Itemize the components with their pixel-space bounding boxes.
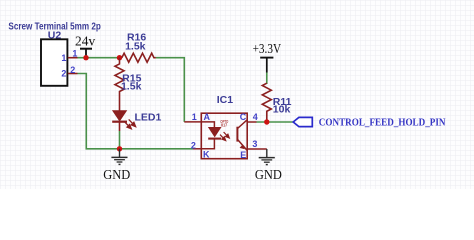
svg-text:A: A <box>204 112 211 122</box>
svg-text:4: 4 <box>253 112 258 122</box>
svg-text:E: E <box>240 150 246 160</box>
ground symbol right <box>259 149 275 165</box>
IC1 internal LED <box>201 122 229 149</box>
IC1 pin 2 stub <box>193 148 201 150</box>
svg-text:IC1: IC1 <box>217 94 234 106</box>
LED1 symbol <box>112 111 135 131</box>
IC1 pin 1 stub <box>184 121 201 123</box>
IC1 pin 4 stub <box>247 121 256 123</box>
emission arrows <box>124 119 135 128</box>
svg-text:2: 2 <box>61 69 66 79</box>
svg-text:LED1: LED1 <box>134 111 161 123</box>
IC1 phototransistor <box>237 120 247 150</box>
svg-text:GND: GND <box>103 167 130 182</box>
internal emission arrows <box>220 132 229 141</box>
resistor R11 <box>262 83 271 122</box>
svg-text:1: 1 <box>72 49 77 59</box>
junction R15/R16 <box>117 55 122 60</box>
svg-text:2: 2 <box>191 140 196 150</box>
svg-text:CONTROL_FEED_HOLD_PIN: CONTROL_FEED_HOLD_PIN <box>319 117 446 129</box>
junction 24v <box>83 55 88 60</box>
svg-text:1.5k: 1.5k <box>125 40 146 52</box>
svg-text:2: 2 <box>70 65 75 75</box>
wire 3.3V to R11 <box>266 73 268 85</box>
connector U2 body <box>41 39 67 86</box>
svg-text:10k: 10k <box>273 104 291 116</box>
grid background <box>0 0 474 189</box>
wire pin1 to R16 <box>78 57 122 59</box>
wire U2 pin2 down and across <box>78 74 194 149</box>
resistor R15 <box>115 58 124 111</box>
svg-text:1: 1 <box>192 112 197 122</box>
svg-text:1: 1 <box>61 53 66 63</box>
wire pin4 to port <box>257 121 294 123</box>
+3.3V bar symbol <box>260 57 273 59</box>
svg-text:+3.3V: +3.3V <box>253 41 282 56</box>
U2 pin 2 stub <box>68 73 78 75</box>
svg-text:K: K <box>203 150 210 160</box>
wire LED1 to ground rail <box>119 131 121 149</box>
optocoupler IC1 body <box>201 113 247 159</box>
resistor R16 <box>122 53 156 62</box>
svg-text:24v: 24v <box>75 33 95 48</box>
U2 pin 1 stub <box>68 57 78 59</box>
ground symbol left <box>111 149 127 165</box>
svg-text:1.5k: 1.5k <box>121 81 142 93</box>
svg-text:3: 3 <box>252 139 257 149</box>
port flag CONTROL_FEED_HOLD_PIN <box>293 117 312 126</box>
junction R11 <box>264 119 269 124</box>
24v power bar symbol <box>80 48 92 50</box>
junction LED/ground <box>117 146 122 151</box>
svg-text:817: 817 <box>221 123 228 128</box>
IC1 pin 3 stub <box>247 148 267 150</box>
wire R16 to IC1 pin A corner <box>156 58 184 122</box>
svg-text:GND: GND <box>255 167 282 182</box>
